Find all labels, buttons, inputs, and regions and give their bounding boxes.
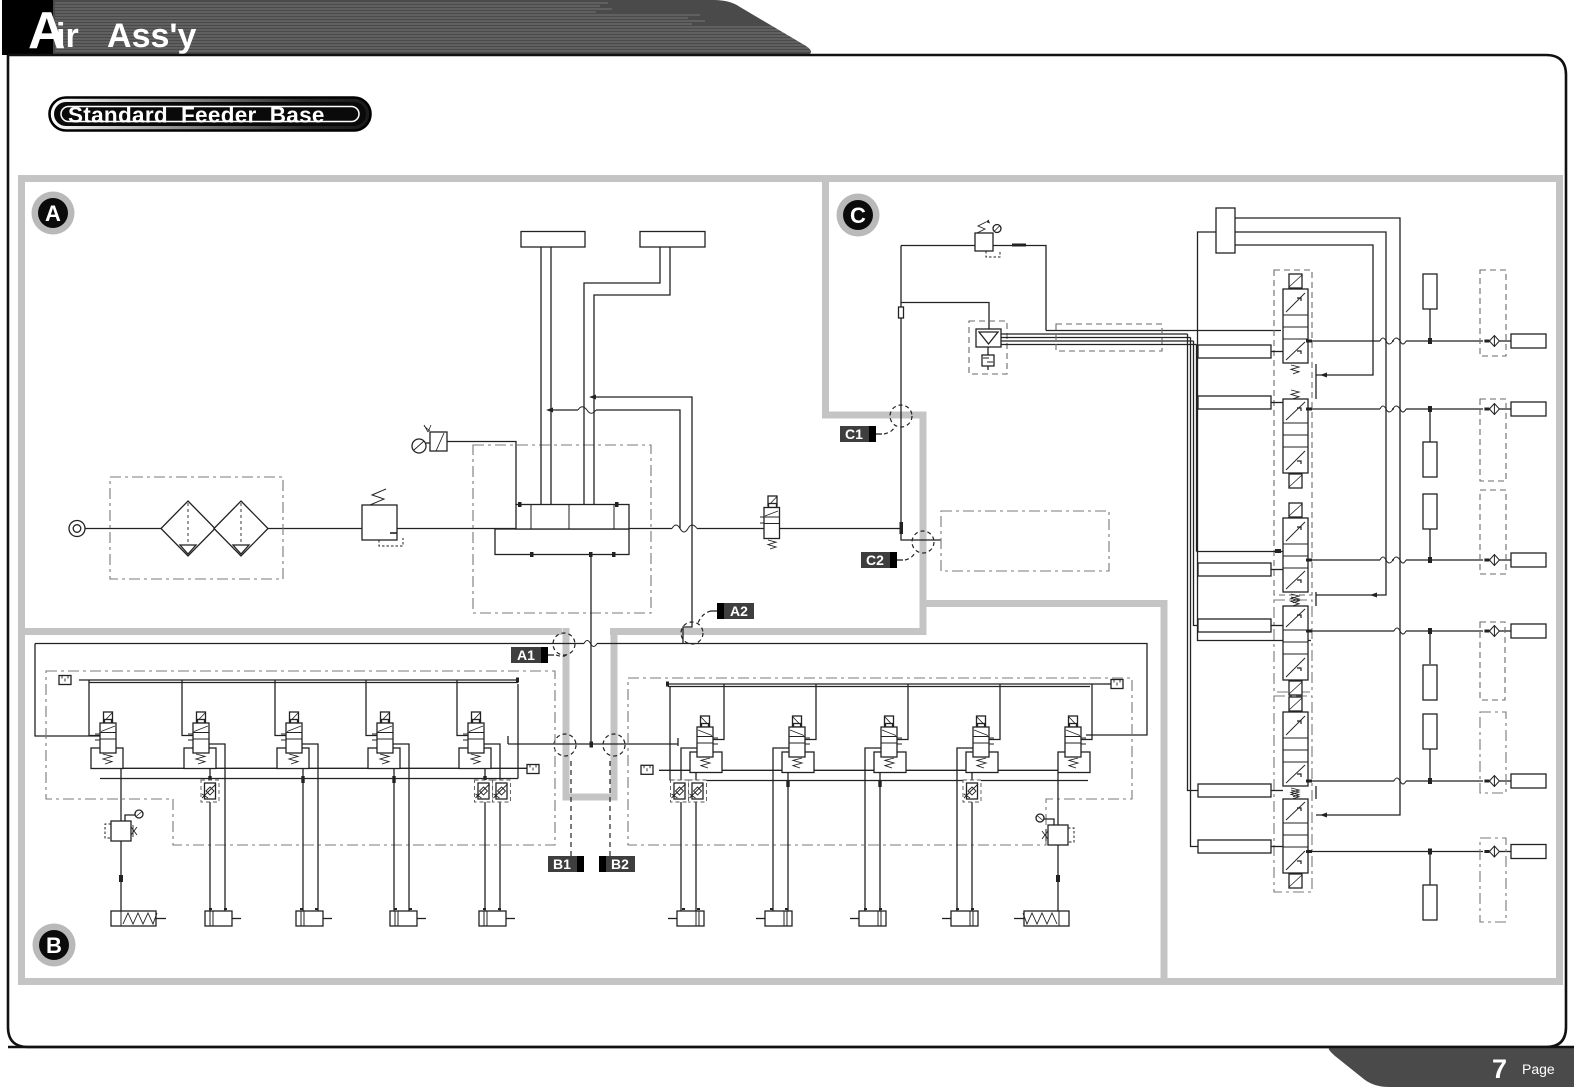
svg-text:A2: A2 (730, 603, 748, 619)
valve C3 (1283, 503, 1308, 603)
output row 4 (1308, 630, 1483, 632)
outlet dashed box 1 (1480, 270, 1506, 356)
valve C1 (1283, 274, 1308, 374)
right bank top bus (668, 684, 1103, 687)
flow control B9 (963, 780, 981, 802)
node C1 circle (890, 405, 912, 427)
pilot connector 6 (1198, 840, 1271, 853)
section C (899, 208, 1547, 922)
left bank top bus (79, 680, 518, 683)
right bank exhaust bus (659, 769, 1090, 771)
flow control B2 (201, 780, 219, 802)
cylinder B4 (390, 909, 426, 926)
check valve row 1 (1484, 336, 1499, 347)
right bank exhaust plug (641, 765, 653, 774)
outlet dashed box 5 (1480, 712, 1506, 793)
vacuum filter (987, 347, 989, 370)
outlet dashed box 3 (1480, 490, 1506, 574)
outlet rect row 5 (1511, 774, 1546, 788)
valve B3 left bank (275, 680, 318, 911)
B1/B2 crossover wire (508, 743, 678, 745)
gray divider A/B right segment (610, 628, 923, 635)
outlet dashed box 2 (1480, 399, 1506, 481)
outlet rect row 1 (1511, 334, 1546, 348)
svg-text:Page: Page (1522, 1061, 1555, 1077)
spring cylinder left (111, 911, 166, 926)
outer gray frame (22, 179, 1560, 982)
section A (35, 232, 1147, 748)
check valve row 6 (1484, 846, 1499, 857)
section B (46, 671, 1132, 926)
left bank lower bus (100, 684, 518, 779)
valve B10 right bank (1058, 684, 1092, 773)
svg-text:C2: C2 (866, 552, 884, 568)
check valve row 5 (1484, 776, 1499, 787)
spring cylinder right (1014, 911, 1069, 926)
muffler 2 (1423, 442, 1437, 477)
pilot connector 1 (1198, 345, 1271, 358)
svg-text:ir Ass'y: ir Ass'y (56, 17, 196, 55)
svg-text:C1: C1 (845, 426, 863, 442)
outlet dashed box 4 (1480, 622, 1505, 700)
flow control B6b (671, 780, 689, 802)
badge A (32, 192, 75, 235)
right bank enclosure (628, 678, 1132, 845)
gauge and pilot valve (412, 425, 516, 505)
valve B4 left bank (366, 680, 409, 911)
valve C2 (1283, 390, 1308, 488)
svg-text:B2: B2 (611, 856, 629, 872)
outlet dashed box 6 (1480, 838, 1506, 922)
svg-text:A: A (45, 201, 61, 226)
check valve row 2 (1484, 404, 1499, 415)
left bank enclosure (46, 671, 555, 845)
valve B7 right bank (773, 684, 816, 915)
pilot bundle (1001, 334, 1197, 345)
flow control B6a (689, 780, 707, 802)
cylinder B8 (850, 909, 886, 926)
label A2 (698, 603, 754, 623)
wires from top manifold (1235, 218, 1400, 815)
svg-text:B1: B1 (553, 856, 571, 872)
gray U channel at B1/B2 (566, 628, 614, 797)
label A1 (511, 647, 567, 663)
valve B5 left bank (457, 680, 500, 911)
regulator right bank (1057, 773, 1059, 826)
svg-text:C: C (850, 203, 866, 228)
wire C1 vertical (901, 246, 941, 541)
cylinder B7 (756, 909, 792, 926)
outlet rect row 2 (1511, 402, 1546, 416)
node C2 circle (912, 531, 934, 553)
end tick at C2 (900, 522, 904, 534)
output row 3 (1308, 559, 1483, 561)
muffler 1 (1423, 274, 1437, 309)
gray divider A/B left segment (22, 628, 563, 635)
valve C4 (1283, 597, 1308, 695)
cylinder B5 (479, 909, 515, 926)
bundle enclosure (1056, 324, 1162, 351)
cylinder B2 (205, 909, 241, 926)
riser link row3 (1197, 551, 1284, 553)
footer bar (1329, 1048, 1574, 1087)
svg-text:A1: A1 (517, 647, 535, 663)
manifold enclosure (473, 445, 651, 613)
node A2 circle (681, 622, 703, 644)
filter F1 (161, 501, 215, 556)
muffler 3 (1423, 494, 1437, 529)
inline valve on supply line (760, 496, 780, 549)
branch to main line (553, 410, 680, 529)
outlet rect row 3 (1511, 553, 1546, 567)
branch to generator (901, 303, 989, 330)
riser pair from header 2 (584, 247, 670, 505)
filter enclosure (110, 477, 283, 579)
muffler 5 (1423, 714, 1437, 749)
svg-text:B: B (46, 933, 62, 958)
svg-text:Standard Feeder Base: Standard Feeder Base (68, 103, 325, 128)
check valve row 3 (1484, 555, 1499, 566)
crossover jog (507, 736, 509, 744)
cylinder B9 (942, 909, 978, 926)
manifold block (495, 502, 629, 557)
top manifold rect C (1216, 208, 1235, 253)
valve pair links (1315, 364, 1317, 799)
bundle risers (1188, 334, 1199, 847)
valve column enclosure 3 (1274, 696, 1312, 892)
flow control B5a (475, 780, 493, 802)
valve B6 right bank (681, 684, 724, 915)
gray divider A/C (826, 179, 924, 636)
inlet port (69, 521, 85, 537)
pilot connector 2 (1198, 396, 1271, 409)
node B2 circle (603, 734, 625, 756)
output row 5 (1308, 780, 1483, 782)
regulator left bank (120, 769, 122, 822)
vacuum generator enclosure (969, 321, 1007, 374)
crossover jog right (677, 738, 679, 746)
node A1 circle (553, 633, 575, 655)
regulator C top (975, 233, 993, 251)
badge C (837, 194, 880, 237)
right bank bus plug (1111, 680, 1123, 689)
flow control B5b (493, 780, 511, 802)
cylinder B6 (668, 909, 704, 926)
label C2 (861, 552, 915, 568)
badge B (33, 924, 76, 967)
label B1 (548, 761, 584, 872)
output row 2 (1308, 408, 1483, 410)
right bank lower bus (670, 686, 1088, 781)
pilot connector 4 (1198, 619, 1271, 632)
output row 6 (1308, 851, 1483, 853)
output row 1 (1308, 340, 1483, 342)
valve column enclosure 2 (1274, 600, 1312, 692)
muffler 6 (1423, 885, 1437, 920)
node B1 circle (554, 734, 576, 756)
vacuum generator (976, 329, 1001, 347)
A1-A2 distribution wire (35, 644, 1147, 736)
filter F2 (214, 501, 268, 556)
valve C6 (1283, 790, 1308, 888)
valve C5 (1283, 697, 1308, 797)
pilot connector 5 (1198, 784, 1271, 797)
left bank bus plug (59, 676, 71, 685)
port header rect 2 (640, 232, 705, 248)
feed to left bank (35, 644, 100, 737)
supply wire C1 to regulator (901, 246, 1046, 331)
spare enclosure box (941, 511, 1109, 571)
regulator R1 (362, 489, 403, 546)
gauge C (995, 231, 997, 233)
muffler 4 (1423, 665, 1437, 700)
valve B8 right bank (865, 684, 908, 915)
pilot connector 3 (1198, 563, 1271, 576)
valve column enclosure 1 (1274, 270, 1312, 595)
outlet rect row 6 (1511, 845, 1546, 859)
valve B1 left bank (89, 680, 123, 769)
label C1 (840, 426, 895, 442)
standard feeder base pill (50, 98, 371, 131)
main supply line (85, 528, 902, 530)
riser pair from header 1 (541, 247, 551, 505)
left bank exhaust plug (527, 765, 539, 774)
header black square (2, 0, 53, 55)
outlet rect row 4 (1511, 624, 1546, 638)
left bank exhaust bus (91, 767, 527, 769)
port header rect 1 (521, 232, 585, 248)
cylinder B3 (296, 909, 332, 926)
valve B2 left bank (182, 680, 225, 911)
junction tick (219, 527, 225, 531)
header striped bar (53, 0, 820, 55)
branch to A2 (596, 397, 692, 644)
label B2 (599, 761, 635, 872)
supply drop to B (590, 555, 592, 745)
wire break hop (672, 525, 697, 532)
gray divider B/C branch (920, 600, 1168, 981)
svg-text:7: 7 (1492, 1054, 1507, 1084)
valve B9 right bank (957, 684, 1000, 915)
check valve row 4 (1484, 626, 1499, 637)
